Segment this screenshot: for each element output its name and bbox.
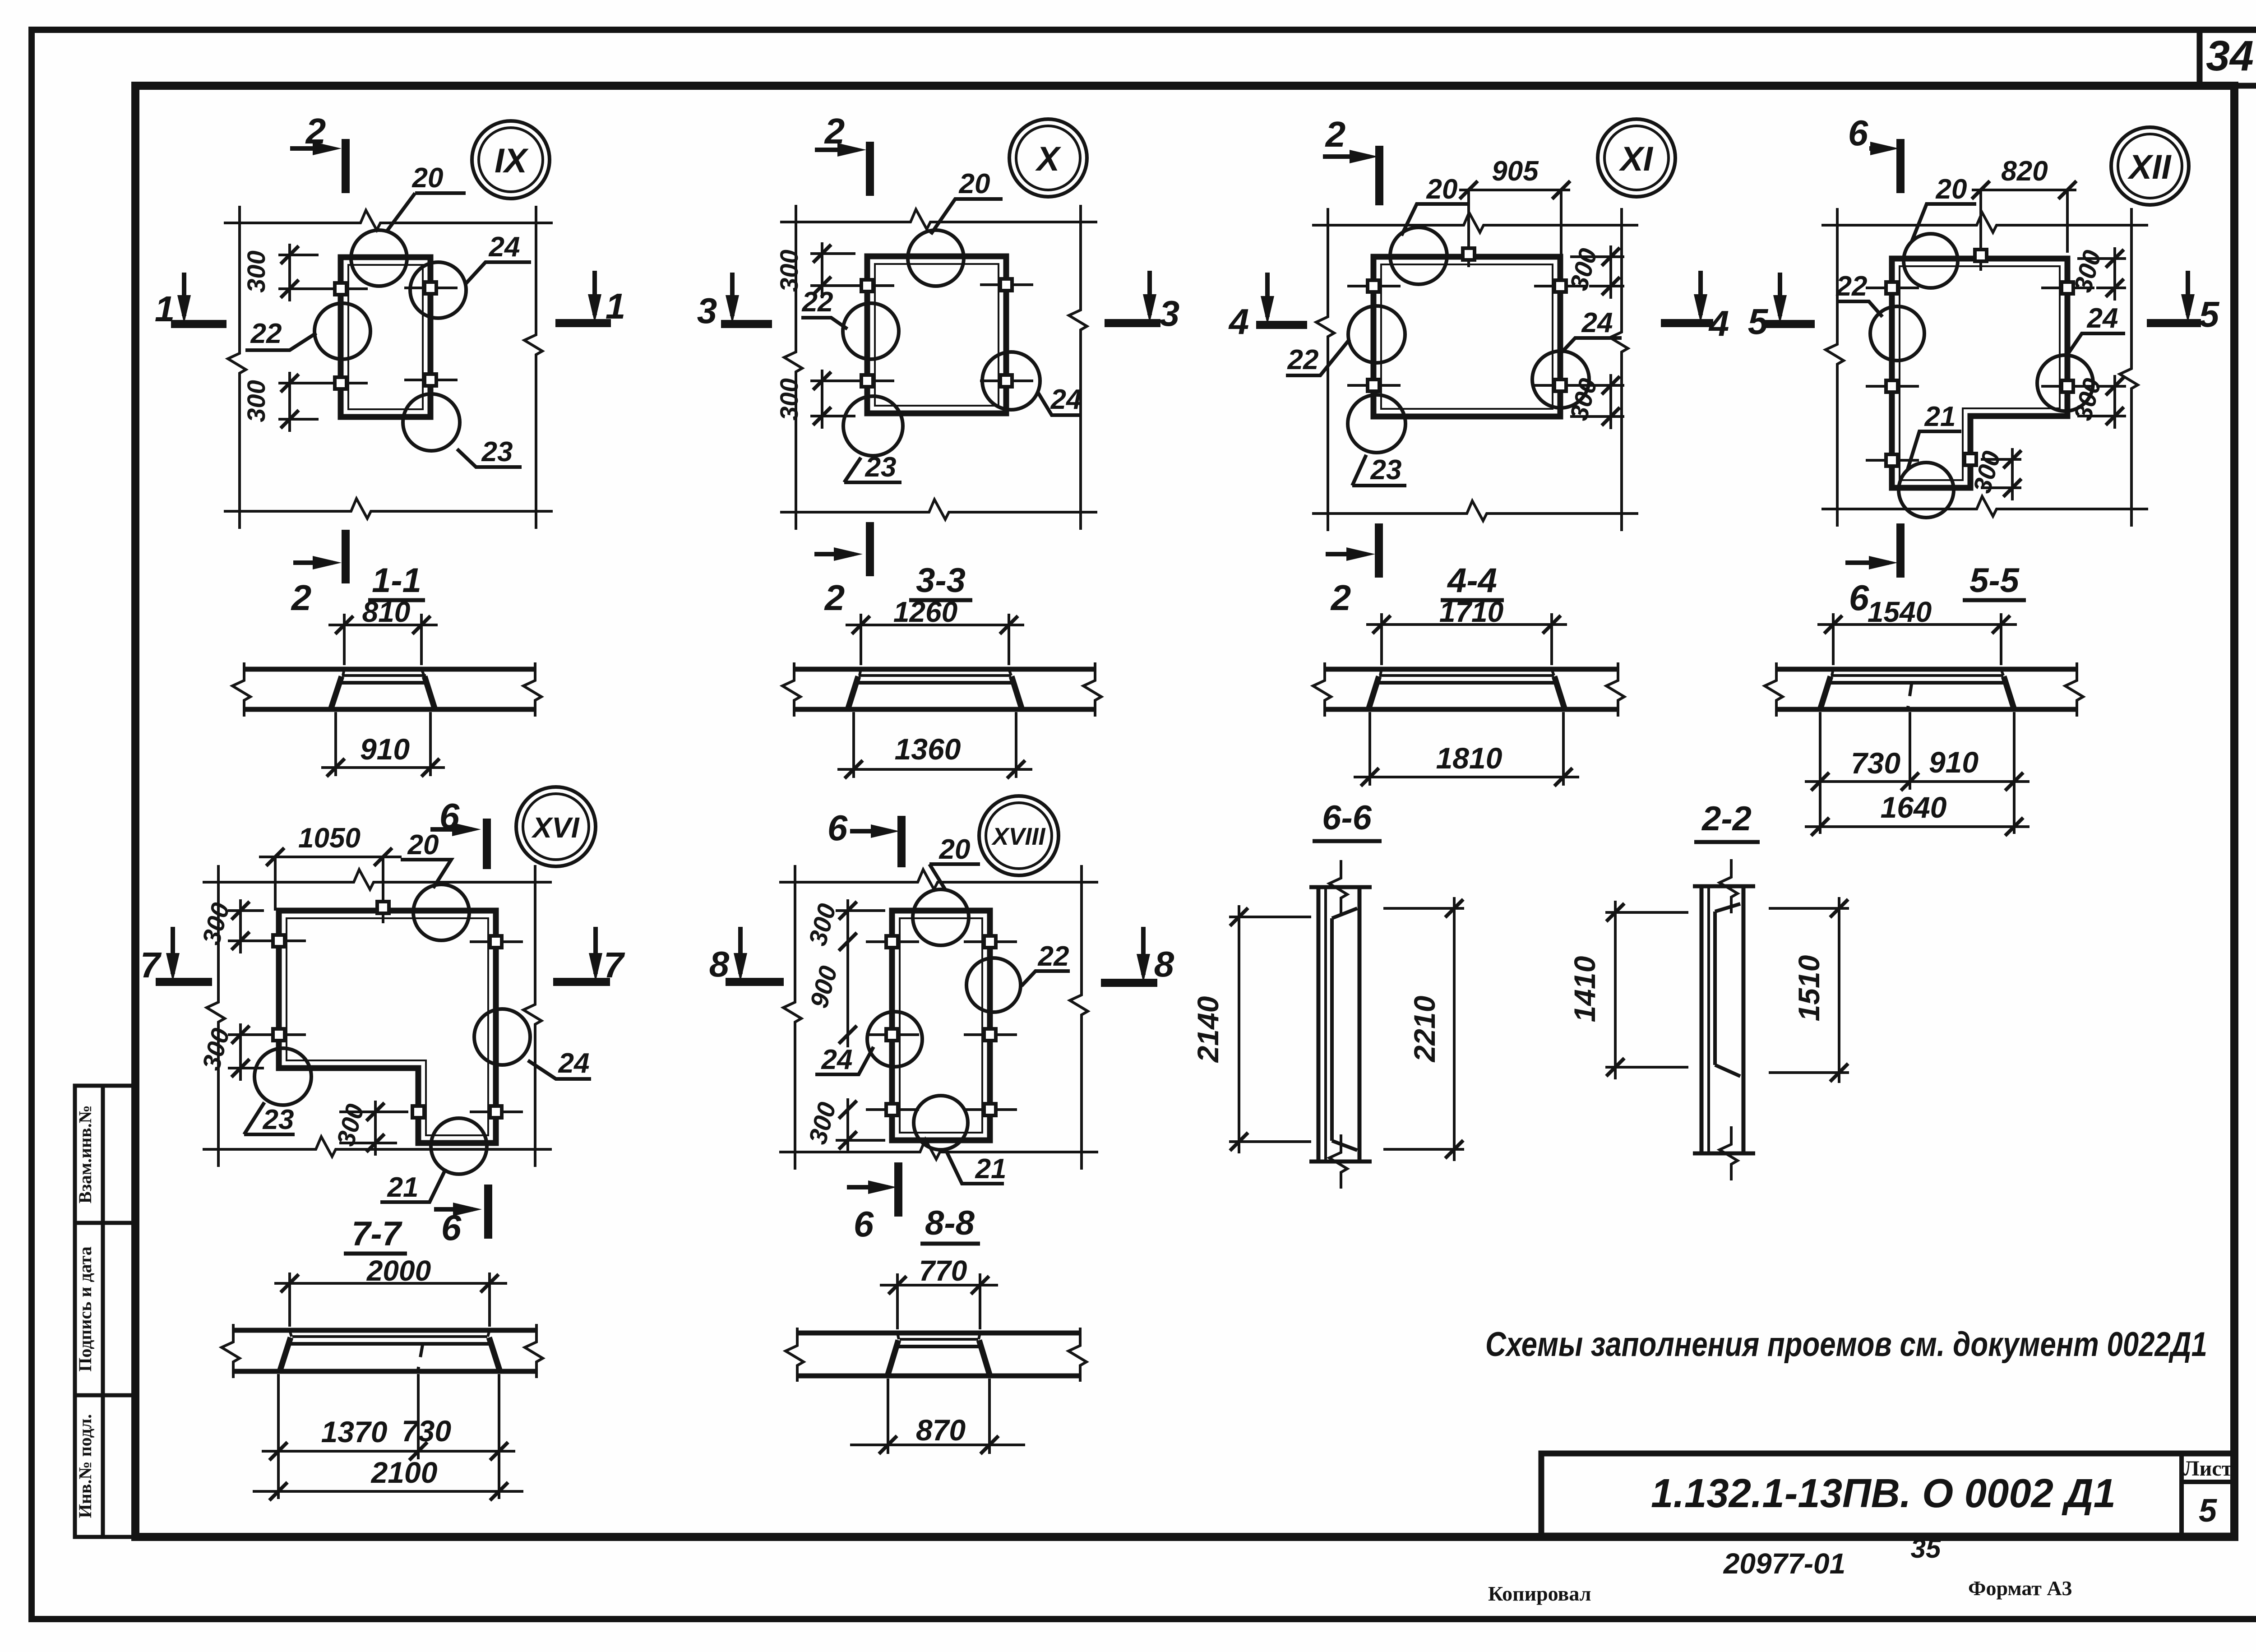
wall dim box XVI [203,865,552,1167]
svg-text:1050: 1050 [298,823,361,854]
opening rect X [867,256,1006,413]
svg-text:3-3: 3-3 [916,561,966,600]
svg-text:3: 3 [1160,293,1180,333]
svg-text:8: 8 [1154,944,1174,984]
detail view IX [155,111,626,618]
svg-text:6: 6 [1848,113,1868,153]
dim 300 right top XI [1570,245,1624,299]
svg-text:Подпись и дата: Подпись и дата [75,1246,95,1372]
opening rect XVIII [892,911,990,1140]
dim 300 right mid XII [2077,375,2126,429]
section mark 2 bottom [342,530,350,583]
svg-text:1410: 1410 [1568,956,1601,1022]
caps 2-2 [1693,884,1755,888]
dim 300 top IX [278,244,319,301]
svg-text:5-5: 5-5 [1969,561,2020,600]
jambs 4-4 [1368,676,1379,709]
section mark 6 bottom [894,1162,902,1217]
left margin stamp strip [75,1086,135,1537]
opening rect IX [341,257,430,417]
svg-text:2140: 2140 [1191,996,1225,1063]
wall band 5-5 [1776,667,2077,672]
opening liner 8-8 [900,1338,978,1341]
svg-text:8-8: 8-8 [925,1204,975,1242]
opening liner 5-5 [1831,674,2003,677]
detail view X [697,111,1180,618]
svg-text:22: 22 [250,318,282,349]
wall band 1-1 [244,667,535,672]
jambs 7-7 [280,1337,291,1371]
L-shaped opening XII [1892,259,2067,488]
svg-text:20: 20 [1936,174,1967,205]
svg-text:6: 6 [441,1208,462,1248]
svg-text:1-1: 1-1 [372,561,421,600]
detail circle 20 [413,884,469,940]
wall section 1-1 [232,596,541,777]
detail bubble X [1009,119,1087,197]
dim 820 [1972,190,2076,253]
dim chain left XVIII: 300 [836,899,885,1153]
svg-text:24: 24 [1050,384,1082,415]
svg-text:35: 35 [1911,1533,1942,1564]
section mark 6 bottom [484,1185,492,1239]
detail circle 22 [314,303,370,359]
detail circle 20 [908,230,964,286]
detail circle 20 [351,230,407,286]
jambs 3-3 [848,676,858,709]
svg-text:910: 910 [360,732,410,766]
svg-text:1640: 1640 [1881,791,1947,824]
svg-text:20: 20 [407,829,439,861]
wall dim box X [780,205,1097,530]
wall band 3-3 [794,667,1095,672]
svg-text:20: 20 [412,162,444,194]
dim 300 left mid XVI [228,1023,264,1081]
opening liner 7-7 [292,1335,487,1338]
svg-text:1.132.1-13ПВ. О 0002 Д1: 1.132.1-13ПВ. О 0002 Д1 [1651,1471,2116,1516]
wall band 4-4 [1325,667,1618,672]
svg-text:23: 23 [263,1104,294,1135]
detail bubble XVI [516,787,596,866]
wall section 8-8 [786,1254,1086,1454]
detail circle 20 [1390,227,1447,284]
svg-text:22: 22 [1038,941,1069,972]
svg-text:34: 34 [2206,32,2254,80]
svg-text:6: 6 [828,808,848,848]
anchor plates IX [314,287,368,290]
svg-text:6: 6 [1849,578,1869,618]
detail circle 22 [1348,306,1405,363]
svg-text:1370: 1370 [321,1415,388,1448]
svg-text:XII: XII [2127,148,2172,186]
detail view XII [1748,113,2220,618]
svg-text:2: 2 [824,578,845,618]
detail circle 22 [966,958,1021,1012]
opening liner 4-4 [1379,674,1554,677]
svg-text:24: 24 [821,1044,853,1075]
svg-text:910: 910 [1929,745,1979,779]
svg-text:2210: 2210 [1408,995,1441,1063]
top anchor plate XII [1979,190,1982,271]
svg-text:300: 300 [242,250,270,292]
svg-text:7-7: 7-7 [351,1215,403,1253]
detail circle 24 [410,262,466,318]
svg-text:IX: IX [495,142,529,180]
svg-text:2: 2 [1325,114,1346,154]
anchor plates X [841,284,894,287]
wall band 8-8 [797,1331,1080,1336]
svg-text:X: X [1035,140,1062,178]
svg-text:21: 21 [975,1153,1007,1185]
opening rect XI [1373,257,1560,416]
dim 300 top X [810,242,855,298]
wall section 5-5 [1765,596,2083,836]
caps 6-6 [1309,885,1372,889]
dim 1050 [259,857,402,911]
svg-text:23: 23 [865,452,897,483]
svg-text:20: 20 [959,168,990,199]
wall section 4-4 [1313,596,1624,786]
svg-text:20: 20 [939,834,971,865]
detail circle 23 [843,396,903,456]
dim 2210 [1383,897,1464,1161]
svg-text:2100: 2100 [370,1456,438,1489]
title block [1541,1453,2234,1536]
detail circle 20 [1904,234,1958,288]
svg-text:4: 4 [1228,301,1249,342]
svg-text:24: 24 [2087,303,2118,334]
L-shaped opening XVI [279,911,496,1143]
jambs 5-5 [1820,676,1831,709]
svg-text:Инв.№ подл.: Инв.№ подл. [75,1414,95,1518]
svg-text:21: 21 [1924,401,1956,432]
detail circle 23 [1348,395,1405,453]
svg-text:20977-01: 20977-01 [1723,1547,1845,1580]
svg-text:6: 6 [854,1204,874,1244]
svg-text:XI: XI [1618,140,1654,178]
dim 300 right top XII [2077,247,2126,301]
svg-text:300: 300 [242,380,270,422]
svg-text:820: 820 [2001,156,2048,187]
section mark 6 bottom [1896,523,1905,578]
dim 905 [1459,190,1570,284]
svg-text:300: 300 [775,250,803,292]
svg-text:Схемы заполнения проемов см. д: Схемы заполнения проемов см. документ 00… [1485,1325,2207,1364]
panel 6-6 [1330,918,1334,1141]
svg-text:20: 20 [1426,174,1458,205]
svg-text:Взам.инв.№: Взам.инв.№ [75,1105,95,1203]
wall section 6-6 [1191,799,1464,1189]
svg-text:22: 22 [1836,271,1868,302]
svg-text:810: 810 [362,596,411,628]
wall section 3-3 [782,596,1101,778]
page number box 34 (top right) [2200,30,2256,86]
svg-text:2-2: 2-2 [1701,800,1752,838]
detail circle 20 [913,889,969,945]
detail bubble XI [1598,119,1675,197]
dim 300 right bottom XI [1570,374,1624,429]
svg-text:5: 5 [2199,294,2220,334]
detail circle 21 [1899,463,1954,518]
detail bubble IX [472,121,550,199]
svg-text:24: 24 [558,1048,590,1079]
svg-text:XVI: XVI [531,811,579,844]
top anchor plate XI [1467,190,1470,267]
svg-text:1360: 1360 [895,732,961,766]
detail circle 24 [2037,355,2093,411]
svg-text:XVIII: XVIII [991,823,1045,850]
notes under title block [1488,1533,2072,1605]
svg-text:1810: 1810 [1436,741,1502,775]
svg-text:3: 3 [697,291,717,331]
detail view XI [1228,114,1729,618]
anchor plates XII [1866,287,1919,289]
svg-text:4-4: 4-4 [1447,561,1497,600]
svg-text:21: 21 [387,1172,419,1203]
svg-text:Лист: Лист [2183,1457,2232,1481]
detail circle 24 [867,1012,922,1067]
anchor plates XVIII [866,940,919,943]
anchor plates XVI [253,939,306,942]
wall dim box XVIII [779,865,1098,1170]
panel 2-2 [1713,912,1717,1065]
svg-text:2: 2 [291,578,312,618]
svg-text:1260: 1260 [893,596,957,628]
detail circle 21 [431,1118,487,1174]
svg-text:23: 23 [1370,454,1402,486]
detail circle 22 [843,303,899,359]
dim 2140 [1229,905,1311,1153]
wall dim box XI [1312,208,1638,531]
svg-text:Копировал: Копировал [1488,1582,1591,1605]
wall section 7-7 [222,1254,543,1500]
svg-text:870: 870 [916,1413,966,1447]
wall section 2-2 [1568,800,1849,1180]
opening liner 1-1 [342,674,426,677]
svg-text:770: 770 [919,1254,967,1287]
wall verticals 2-2 [1700,886,1704,1153]
dim 1510 [1769,897,1849,1083]
svg-text:24: 24 [1581,307,1613,338]
dim 1410 [1605,901,1688,1079]
dim 300 step XII [1981,448,2021,500]
detail circle 23 [254,1048,311,1105]
svg-text:1510: 1510 [1792,955,1826,1021]
svg-text:5: 5 [2199,1493,2217,1529]
jambs 1-1 [331,676,342,709]
svg-text:23: 23 [481,436,513,467]
detail circle 22 [1870,306,1924,361]
top anchor plate XVI [382,857,384,923]
wall verticals 6-6 [1317,887,1321,1161]
anchor plates XI [1347,285,1401,287]
detail circle 23 [403,394,460,451]
detail circle 21 [914,1096,968,1150]
dim 300 bottom IX [278,372,319,432]
detail circle 24 [1532,351,1589,408]
detail bubble XVIII [979,796,1059,875]
wall band 7-7 [233,1328,536,1333]
dim 300 left top XVI [228,899,264,953]
detail circle 24 [474,1009,530,1065]
section mark 2 bottom [866,522,874,576]
section mark 2 bottom [1375,523,1383,578]
dim 300 step XVI [339,1101,408,1156]
svg-text:22: 22 [1287,344,1319,375]
svg-text:905: 905 [1492,156,1539,187]
svg-text:6-6: 6-6 [1322,799,1372,837]
detail circle 24 [982,352,1040,410]
detail view XVI [140,787,625,1254]
opening liner 3-3 [859,674,1011,677]
dim 300 bottom X [810,370,855,429]
jambs 8-8 [888,1340,898,1376]
wall dim box IX [224,206,553,529]
svg-text:730: 730 [1851,746,1900,780]
svg-text:300: 300 [775,378,803,420]
panel joint dashed 5-5 [1908,683,1912,709]
svg-text:24: 24 [489,231,520,263]
panel joint dashed 7-7 [418,1344,423,1371]
detail bubble XII [2111,127,2189,205]
svg-text:2: 2 [1330,578,1351,618]
detail view XVIII [709,796,1174,1244]
wall dim box XII [1821,208,2148,527]
svg-text:Формат А3: Формат А3 [1968,1577,2072,1600]
